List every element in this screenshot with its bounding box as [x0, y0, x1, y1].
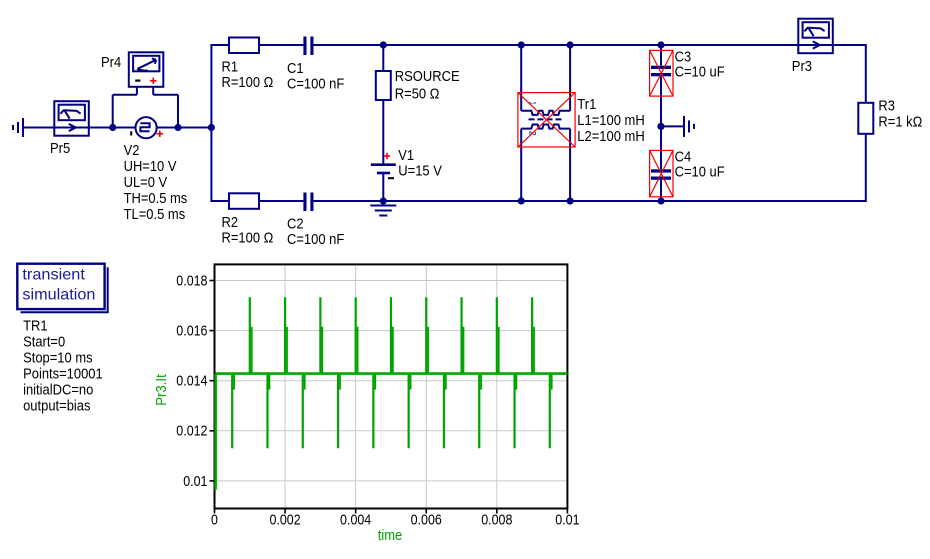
svg-text:0.01: 0.01 — [555, 512, 579, 528]
svg-text:R2: R2 — [222, 215, 239, 231]
svg-text:transient: transient — [22, 267, 85, 284]
svg-text:V1: V1 — [398, 148, 414, 164]
svg-text:C=10 uF: C=10 uF — [675, 165, 725, 181]
svg-text:0.01: 0.01 — [183, 474, 207, 490]
svg-text:C=100 nF: C=100 nF — [287, 232, 344, 248]
svg-text:Points=10001: Points=10001 — [23, 367, 103, 383]
svg-text:C1: C1 — [287, 61, 304, 77]
svg-text:0.014: 0.014 — [176, 374, 207, 390]
svg-text:Start=0: Start=0 — [23, 335, 65, 351]
svg-text:0.002: 0.002 — [269, 512, 300, 528]
svg-text:0.004: 0.004 — [340, 512, 371, 528]
svg-text:R=1 kΩ: R=1 kΩ — [878, 115, 922, 131]
svg-text:0.012: 0.012 — [176, 424, 207, 440]
svg-text:TL=0.5 ms: TL=0.5 ms — [124, 207, 186, 223]
svg-text:U=15 V: U=15 V — [398, 164, 442, 180]
svg-text:R1: R1 — [222, 60, 239, 76]
svg-text:C2: C2 — [287, 217, 304, 233]
svg-text:TH=0.5 ms: TH=0.5 ms — [124, 191, 188, 207]
svg-text:C=10 uF: C=10 uF — [675, 65, 725, 81]
svg-text:R=100 Ω: R=100 Ω — [222, 75, 274, 91]
svg-text:Stop=10 ms: Stop=10 ms — [23, 351, 93, 367]
svg-text:RSOURCE: RSOURCE — [395, 69, 460, 85]
svg-text:Pr5: Pr5 — [50, 141, 70, 157]
svg-text:L1=100 mH: L1=100 mH — [577, 113, 644, 129]
svg-text:time: time — [378, 528, 403, 544]
svg-text:0.008: 0.008 — [481, 512, 512, 528]
svg-text:0.018: 0.018 — [176, 273, 207, 289]
svg-text:simulation: simulation — [22, 286, 95, 303]
svg-text:Pr4: Pr4 — [101, 55, 121, 71]
svg-text:R3: R3 — [878, 99, 895, 115]
svg-text:UH=10 V: UH=10 V — [124, 159, 177, 175]
svg-text:Tr1: Tr1 — [577, 97, 596, 113]
svg-text:output=bias: output=bias — [23, 399, 90, 415]
svg-text:V2: V2 — [124, 143, 140, 159]
svg-text:Pr3.It: Pr3.It — [154, 374, 170, 406]
svg-text:C=100 nF: C=100 nF — [287, 77, 344, 93]
svg-text:initialDC=no: initialDC=no — [23, 383, 93, 399]
svg-text:R=50 Ω: R=50 Ω — [395, 87, 440, 103]
svg-text:C4: C4 — [675, 150, 692, 166]
svg-text:C3: C3 — [675, 49, 692, 65]
svg-text:L2=100 mH: L2=100 mH — [577, 129, 644, 145]
svg-text:0.016: 0.016 — [176, 324, 207, 340]
svg-text:R=100 Ω: R=100 Ω — [222, 231, 274, 247]
svg-text:Pr3: Pr3 — [792, 59, 812, 75]
svg-text:0.006: 0.006 — [411, 512, 442, 528]
svg-text:TR1: TR1 — [23, 319, 47, 335]
svg-text:0: 0 — [211, 512, 218, 528]
svg-text:UL=0 V: UL=0 V — [124, 175, 168, 191]
